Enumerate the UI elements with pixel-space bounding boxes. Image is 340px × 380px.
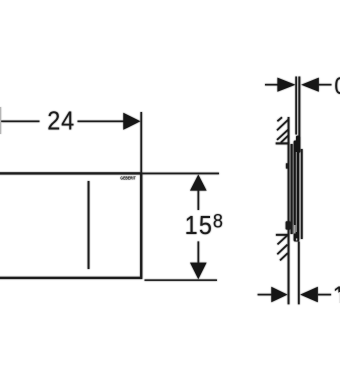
svg-text:1: 1 (333, 281, 340, 308)
dimension 24 line right segment (78, 121, 125, 123)
mounting frame inner line (side view) (291, 144, 293, 234)
down arrowhead of 15.8 (190, 263, 207, 280)
arrowhead of dimension 24 (123, 113, 140, 130)
light notch at plate body bottom (296, 238, 297, 240)
top wall hatch stroke 2 (277, 120, 288, 130)
bottom dimension right line (318, 294, 331, 296)
side view wall vertical line (288, 117, 290, 304)
extension line above plate right edge (140, 112, 142, 172)
dimension 15.8 top extension line (142, 173, 219, 175)
svg-text:8: 8 (213, 210, 223, 232)
plate body top cap (296, 136, 300, 153)
light streak in plate body (296, 152, 297, 232)
bottom dimension left-pointing arrowhead (300, 287, 318, 303)
svg-text:GEBERIT: GEBERIT (120, 176, 136, 180)
plate front face line (side view) (301, 149, 303, 239)
niche top horizontal line (276, 142, 290, 144)
dimension 24 line left segment (0, 121, 40, 123)
faint stem remnant of cropped 1 (338, 292, 340, 303)
bottom dimension right-pointing arrowhead (271, 287, 287, 303)
top dimension right-pointing arrowhead (277, 78, 295, 92)
top wall hatch stroke 3 (277, 130, 288, 140)
bottom wall hatch stroke 1 (278, 235, 288, 244)
top small dimension left line (265, 84, 278, 86)
side view: wall finish line (left of pair) (295, 77, 297, 135)
light notch lower in plate body (294, 225, 295, 234)
side view: plate plane line (right of pair) (298, 77, 300, 137)
dimension 15.8 line lower segment (198, 241, 200, 262)
top wall hatch stroke 1 (277, 117, 282, 121)
svg-text:15: 15 (185, 212, 213, 240)
lower mounting clip (286, 221, 291, 229)
left crop arrow remnant (0, 107, 1, 134)
top small dimension right line (319, 84, 332, 86)
plate plane line below plate (298, 242, 300, 305)
plate button divider line (88, 181, 90, 269)
svg-text:0: 0 (334, 72, 340, 99)
top wall hatch stroke 4 (281, 135, 289, 142)
niche bottom horizontal line (276, 234, 288, 236)
dimension 15.8 line upper segment (198, 190, 200, 210)
top dimension left-pointing arrowhead (301, 78, 319, 92)
bottom dimension left line (258, 294, 272, 296)
up arrowhead of 15.8 (190, 175, 207, 191)
bottom wall hatch stroke 3 (280, 253, 288, 260)
plate body block (side view) (294, 141, 300, 242)
upper mounting clip (286, 163, 288, 168)
cropped bottom dimension label 1 (333, 281, 340, 308)
flush plate front view outline (0, 173, 141, 278)
bottom wall hatch stroke 2 (277, 245, 287, 255)
svg-text:24: 24 (47, 108, 75, 136)
dimension 15.8 bottom extension line (145, 279, 218, 281)
